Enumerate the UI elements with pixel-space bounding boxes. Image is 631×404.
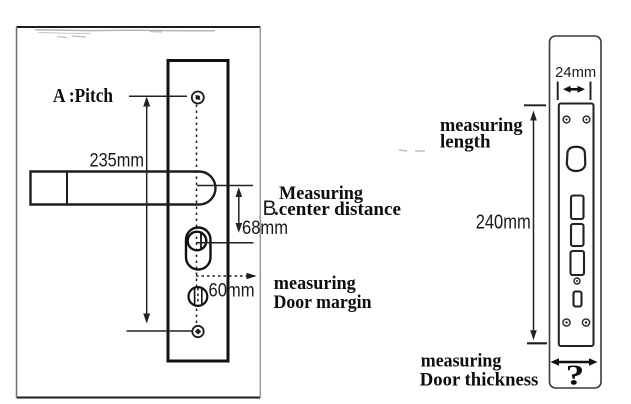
svg-text:68mm: 68mm [242,218,288,239]
svg-text:24mm: 24mm [555,65,596,81]
svg-text:length: length [440,132,491,153]
svg-text:240mm: 240mm [476,212,531,234]
svg-text:Door margin: Door margin [274,292,372,313]
svg-text:235mm: 235mm [90,151,145,172]
svg-text:60mm: 60mm [209,281,255,302]
svg-text:measuring: measuring [421,351,502,372]
svg-text:measuring: measuring [274,273,356,294]
svg-text:.center distance: .center distance [274,199,401,220]
svg-text:?: ? [566,361,584,392]
svg-text:A :Pitch: A :Pitch [53,85,113,107]
svg-text:Door thickness: Door thickness [420,370,539,391]
